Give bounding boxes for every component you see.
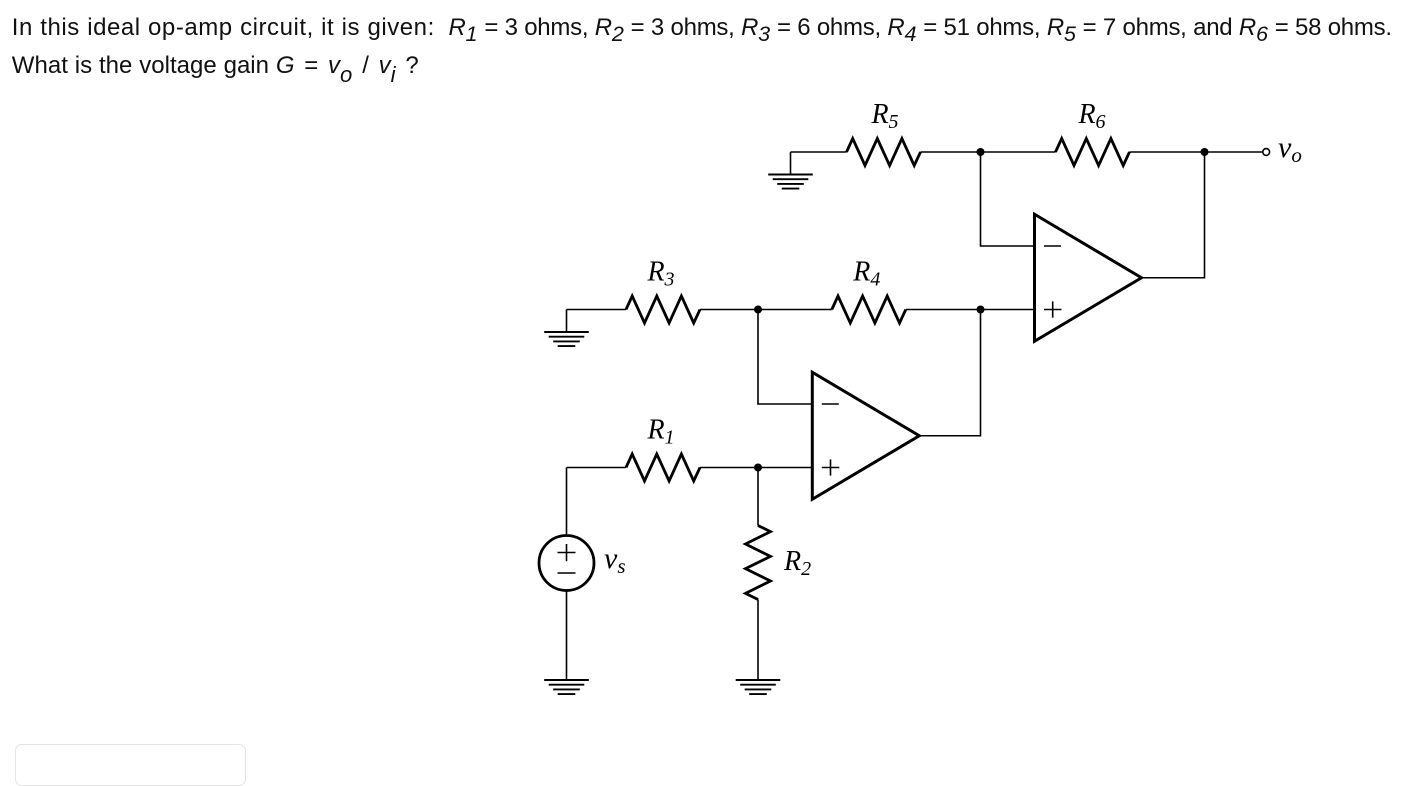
resistor R4: [832, 296, 906, 323]
wire node E to U1 non-inverting input: [758, 467, 812, 469]
node B (R6/output junction): [1201, 148, 1209, 156]
resistor R2 (vertical): [746, 526, 771, 600]
svg-text:R4: R4: [852, 257, 880, 291]
resistor R1: [626, 454, 700, 481]
ground G1 (below source): [544, 680, 589, 694]
question text: [12, 9, 1392, 84]
wire node D to R4: [758, 309, 832, 311]
ground G5 (left of R5): [768, 152, 813, 189]
svg-text:R6: R6: [1077, 99, 1105, 133]
wire node A down to U2 inverting input: [981, 152, 1035, 246]
svg-text:R2: R2: [783, 546, 811, 580]
wire U1 output to node C (feedback): [919, 310, 980, 436]
U2 minus marker: [1044, 245, 1061, 247]
wire R4 to node C: [906, 309, 981, 311]
ground G3 (left of R3): [544, 310, 589, 347]
wire source corner to R1: [567, 467, 627, 469]
wire R1 to node E: [700, 467, 758, 469]
resistor R3: [626, 296, 700, 323]
answer box (cut off at bottom): [15, 744, 246, 786]
wire U2 output to node B (feedback): [1142, 152, 1205, 278]
U2 plus marker: [1044, 301, 1062, 317]
wire source to ground: [566, 591, 568, 680]
node A (R5/R6 junction): [977, 148, 985, 156]
svg-text:R5: R5: [870, 99, 898, 133]
terminal vo (open circle): [1263, 149, 1270, 156]
node E (R1/R2/U1+ junction): [754, 464, 762, 472]
svg-text:vs: vs: [604, 542, 626, 578]
wire R2 to ground: [757, 600, 759, 680]
node C (R4/U2+ junction): [977, 306, 985, 314]
VS minus marker: [558, 572, 576, 574]
svg-text:vo: vo: [1278, 131, 1302, 167]
op-amp U1: [812, 372, 919, 499]
VS plus marker: [558, 544, 576, 561]
wire node C to U2 non-inverting input: [981, 309, 1035, 311]
wire node D down to U1 inverting input: [758, 310, 812, 405]
op-amp U2: [1035, 214, 1142, 341]
svg-text:R1: R1: [646, 415, 674, 449]
resistor R5: [847, 139, 921, 166]
resistor R6: [1056, 139, 1130, 166]
svg-text:R3: R3: [646, 257, 674, 291]
source VS (circle): [539, 536, 594, 591]
wire node A to R6: [981, 151, 1056, 153]
node D (R3/R4 junction): [754, 306, 762, 314]
wire R1 corner down to source vs: [566, 468, 568, 536]
wire ground to R3: [567, 309, 627, 311]
wire R6 to node B: [1130, 151, 1205, 153]
wire node B to output terminal: [1205, 151, 1263, 153]
U1 plus marker: [822, 459, 840, 475]
ground G2 (below R2): [736, 680, 781, 694]
U1 minus marker: [822, 403, 839, 405]
wire ground to R5: [791, 151, 847, 153]
wire node E down to R2: [757, 468, 759, 526]
wire R3 to node D: [700, 309, 758, 311]
wire R5 to node A: [921, 151, 981, 153]
